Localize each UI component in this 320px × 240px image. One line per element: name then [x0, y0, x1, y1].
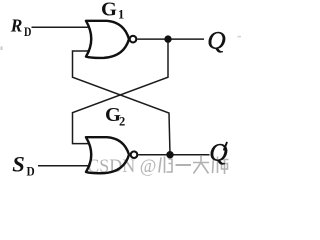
junction node Q' [166, 151, 173, 158]
svg-text:S: S [12, 152, 25, 177]
wire Q' feedback: Q' junction up, cross diagonal, up to G1 lower input [73, 51, 171, 155]
svg-text:Q: Q [207, 25, 225, 54]
G2 output bubble [131, 151, 138, 158]
scan speckle left [1, 47, 3, 51]
gate white fills (under watermark) [86, 21, 129, 58]
watermark char 大 [193, 156, 209, 174]
svg-text:R: R [10, 16, 23, 36]
watermark char 一 [176, 164, 192, 166]
NOR gate G2 body [86, 137, 129, 173]
G1 output bubble [130, 36, 137, 43]
wire S_D to G2 input [38, 165, 91, 167]
watermark char 归 [159, 157, 172, 174]
svg-text:D: D [27, 163, 35, 178]
svg-text:Q: Q [209, 137, 227, 166]
wire G2 output to Q' [138, 154, 209, 156]
wire G1 output to Q [137, 38, 204, 40]
watermark char 师 [213, 157, 229, 175]
wire Q feedback: Q junction down, cross diagonal, down to G2 upper input [73, 39, 169, 144]
svg-text:D: D [24, 25, 31, 39]
junction node Q [164, 35, 171, 42]
svg-text:1: 1 [118, 8, 124, 22]
scan speckle right of Q [238, 36, 242, 38]
NOR gate G1 body [86, 21, 129, 58]
svg-text:G: G [101, 0, 117, 21]
svg-text:2: 2 [119, 115, 125, 129]
wire R_D to G1 input [32, 26, 91, 28]
